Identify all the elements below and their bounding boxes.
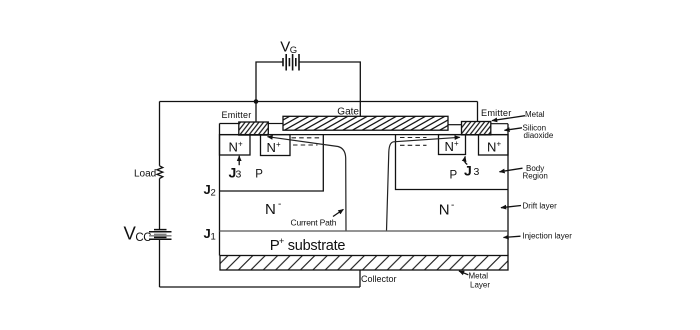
emitter metal left (239, 122, 268, 135)
svg-text:Load: Load (134, 168, 156, 179)
junction line J1 (220, 230, 509, 232)
svg-text:N: N (267, 140, 276, 155)
svg-text:Metal: Metal (525, 110, 545, 119)
svg-text:N: N (439, 202, 450, 219)
emitter metal right (462, 122, 491, 135)
channel dashes left (292, 138, 322, 145)
P body left boundary (220, 135, 324, 191)
wire emitter right drop (477, 102, 479, 123)
svg-text:Emitter: Emitter (222, 110, 252, 120)
svg-text:J: J (464, 163, 472, 179)
N+ region 4 (479, 135, 509, 155)
svg-text:Collector: Collector (361, 274, 397, 284)
wire VCC to bottom (159, 239, 161, 287)
device left edge (219, 124, 221, 256)
wire load to VCC (159, 179, 161, 230)
leader Body Region (500, 168, 523, 172)
svg-text:Metal: Metal (469, 271, 489, 280)
current path left (268, 137, 347, 231)
svg-text:Current Path: Current Path (291, 218, 337, 228)
svg-text:+: + (276, 140, 281, 149)
P body right boundary (396, 135, 509, 190)
svg-text:N: N (445, 139, 454, 154)
svg-text:3: 3 (474, 166, 480, 178)
leader Injection layer (504, 236, 521, 237)
device right edge (507, 124, 509, 256)
oxide line gate-right metal (448, 124, 462, 126)
svg-text:+: + (238, 140, 243, 149)
svg-text:1: 1 (211, 232, 216, 243)
leader Drift layer (501, 206, 521, 208)
svg-text:Injection layer: Injection layer (523, 232, 573, 241)
wire left branch top (159, 102, 161, 166)
N+ region 2 (261, 135, 291, 156)
wire VG left (256, 62, 283, 102)
battery VCC (149, 230, 172, 240)
svg-text:Layer: Layer (470, 280, 490, 289)
N+ region 1 (220, 135, 251, 155)
leader Metal Layer bottom (459, 271, 468, 275)
svg-text:N: N (487, 140, 496, 155)
channel dashes right (400, 138, 427, 146)
svg-text:Emitter: Emitter (481, 108, 512, 118)
svg-text:substrate: substrate (288, 238, 346, 254)
gate electrode (283, 116, 448, 130)
resistor Load (157, 166, 163, 179)
svg-text:-: - (278, 199, 281, 210)
battery VG (283, 54, 299, 71)
current path right (387, 137, 460, 231)
collector metal bar (220, 256, 508, 271)
svg-text:P: P (450, 170, 458, 182)
N+ region 3 (439, 135, 466, 155)
svg-text:N: N (229, 140, 238, 155)
oxide box right top line (491, 123, 508, 125)
leader Metal top (492, 116, 525, 121)
svg-text:P: P (255, 169, 263, 181)
svg-text:+: + (454, 139, 459, 148)
svg-text:CC: CC (135, 232, 151, 244)
wire VG right to gate (299, 62, 360, 117)
node emitter junction (254, 99, 259, 104)
arrow J3 left (238, 156, 240, 165)
wire bottom rail (160, 286, 361, 288)
wire collector lead (359, 270, 361, 287)
silicon surface line (220, 134, 509, 136)
svg-text:Drift layer: Drift layer (523, 201, 558, 210)
svg-text:2: 2 (211, 188, 216, 199)
arrow Current Path (333, 209, 343, 216)
svg-text:+: + (279, 236, 284, 246)
arrow J3 right (465, 156, 468, 164)
wire emitter left drop (255, 102, 257, 123)
svg-text:3: 3 (236, 169, 242, 181)
oxide line metal-gate (268, 123, 283, 125)
leader Silicon diaoxide (505, 128, 523, 131)
wire emitter top rail (160, 101, 478, 103)
svg-text:diaoxide: diaoxide (524, 131, 554, 140)
svg-text:-: - (451, 200, 454, 211)
svg-text:+: + (497, 140, 502, 149)
svg-text:G: G (290, 45, 297, 56)
svg-text:N: N (265, 201, 276, 218)
oxide top line left strip (220, 123, 239, 125)
svg-text:Region: Region (523, 172, 548, 181)
